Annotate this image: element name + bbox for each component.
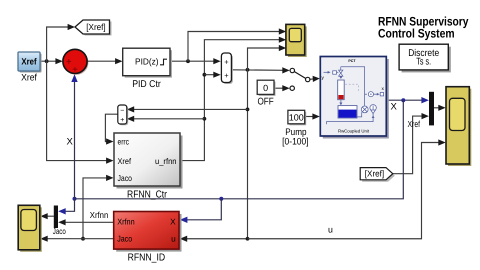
wire Manual Switch output to Subsystem input 1 — [310, 76, 320, 82]
svg-text:Xref: Xref — [118, 156, 132, 166]
constant 0 block — [257, 80, 275, 107]
constant 100 block (Pump) — [282, 110, 309, 147]
wire u line right and up to Scope2 input 2 — [248, 139, 446, 238]
svg-text:PCT: PCT — [348, 59, 356, 63]
node u_rfnn junction at Sum3 branch — [203, 117, 207, 121]
wire X feedback down and left (blue) — [75, 100, 404, 199]
wire X output of Subsystem to Mux1 input 1 (blue) — [386, 97, 429, 103]
wire PID branch up to Scope1 input 1 — [188, 28, 286, 61]
wire Sum2 output to Manual Switch input 1 — [232, 67, 290, 73]
wire Xref branch down to RFNN_Ctr Xref input — [47, 61, 114, 164]
svg-text:−: − — [120, 108, 124, 115]
subsystem pump circle — [370, 105, 376, 114]
wire u_total branch to Sum3 minus input — [127, 106, 248, 112]
subsystem plant (tank model) — [320, 57, 389, 139]
svg-text:RwCoupled Unit: RwCoupled Unit — [338, 128, 370, 133]
node PID output junction — [186, 59, 190, 63]
wire Sum to PID — [87, 58, 122, 64]
node u_total junction at Sum3 minus branch — [246, 108, 250, 112]
goto tag [Xref] — [75, 20, 112, 36]
svg-text:RFNN_ID: RFNN_ID — [128, 252, 166, 263]
svg-text:Xref: Xref — [21, 57, 37, 67]
svg-text:errc: errc — [118, 137, 130, 147]
sum3 block (- +) flipped — [118, 105, 128, 125]
subsystem inner inlet arrow and box — [324, 71, 339, 74]
svg-text:Xref: Xref — [21, 73, 37, 84]
svg-text:[Xref]: [Xref] — [86, 22, 105, 32]
subsystem arrow into tube — [339, 76, 342, 79]
svg-text:RFNN_Ctr: RFNN_Ctr — [127, 190, 168, 201]
from tag [Xref] — [360, 168, 395, 182]
wire Constant 0 to Manual Switch input 2 — [274, 85, 290, 91]
sum block (red circle) — [63, 49, 89, 75]
wire u_rfnn branch to Sum3 plus input — [127, 116, 205, 122]
svg-text:OFF: OFF — [258, 96, 274, 107]
scope1 (yellow, 3 inputs) — [286, 24, 307, 57]
subsystem tube with red bottom — [338, 80, 345, 100]
wire X feedback down to Mux2 input 1 (blue) — [58, 199, 74, 215]
wire Mux2 output to Scope3 input 1 — [40, 213, 54, 219]
svg-text:100: 100 — [289, 113, 304, 123]
Discrete Ts block — [399, 44, 451, 72]
node X feedback junction at RFNN_ID branch (blue) — [219, 197, 223, 201]
svg-text:+: + — [224, 57, 229, 66]
wire RFNN_ID Jaco output to Scope3 input 2 — [40, 236, 114, 242]
svg-text:Xrfnn: Xrfnn — [90, 210, 109, 220]
svg-text:X: X — [391, 102, 398, 113]
wire Xref inport to Sum — [40, 58, 63, 64]
svg-text:Jaco: Jaco — [53, 226, 66, 236]
title RFNN Supervisory Control System — [378, 15, 469, 41]
node X feedback junction at Sum branch (blue) — [73, 197, 77, 201]
svg-text:+: + — [120, 117, 124, 124]
wire Xref branch up to Goto tag — [47, 24, 75, 61]
node u_rfnn junction at Sum2 branch — [203, 73, 207, 77]
svg-text:u_rfnn: u_rfnn — [155, 156, 177, 166]
subsystem arrow tube to tank — [339, 100, 342, 106]
mux2 (vertical black bar, flipped) labelled Jaco — [53, 206, 66, 236]
wire Mux1 output to Scope2 input 1 — [434, 105, 446, 111]
svg-text:PID(z): PID(z) — [135, 56, 159, 66]
subsystem top pipe line — [341, 67, 365, 106]
svg-text:X: X — [67, 136, 74, 147]
subsystem bottom feedback pipe — [327, 114, 375, 125]
wire From tag Xref to Mux1 input 2 — [392, 113, 429, 174]
manual switch — [290, 68, 310, 90]
RFNN_Ctr block — [114, 133, 183, 201]
node Jaco junction — [81, 237, 85, 241]
wire RFNN_ID Xrfnn output to Mux2 input 2 — [58, 219, 114, 225]
wire Constant 100 to Subsystem input 2 — [305, 113, 320, 119]
svg-text:Jaco: Jaco — [117, 234, 132, 244]
svg-text:PID Ctr: PID Ctr — [132, 79, 161, 90]
subsystem valve symbol (hourglass) — [339, 67, 343, 76]
wire u_total vertical line — [248, 45, 287, 239]
RFNN_ID block — [114, 212, 182, 264]
wire X feedback branch to RFNN_ID X input (blue) — [180, 199, 222, 223]
node X junction (blue) — [401, 98, 405, 102]
svg-text:[Xref]: [Xref] — [365, 169, 384, 179]
svg-text:Jaco: Jaco — [118, 173, 133, 183]
subsystem dashed sensor lines — [345, 84, 358, 91]
wire u line from Sum2 junction down to RFNN_ID u input — [180, 236, 248, 242]
svg-text:0: 0 — [263, 83, 268, 93]
node u_total junction — [246, 68, 250, 72]
scope3 (yellow, flipped, 2 inputs) — [18, 205, 42, 252]
svg-text:u: u — [171, 234, 176, 244]
svg-text:[0-100]: [0-100] — [282, 137, 309, 148]
inport Xref — [18, 52, 42, 84]
wire u_rfnn branch to Sum2 input 2 — [204, 72, 220, 78]
svg-text:Xref: Xref — [408, 119, 421, 129]
mux1 (vertical black bar) — [429, 92, 434, 126]
wire X feedback up to Sum bottom input (blue) — [71, 74, 77, 199]
subsystem tank with blue water — [338, 106, 357, 118]
node Xref branch junction — [45, 59, 49, 63]
wire PID output to Sum2 input 1 — [170, 58, 221, 64]
node u junction — [246, 237, 250, 241]
subsystem pipe tank to valve circle — [357, 112, 362, 117]
wire u_rfnn from RFNN_Ctr up to Scope1 input 2 — [180, 37, 287, 161]
svg-text:Ts s.: Ts s. — [416, 57, 431, 68]
svg-text:X: X — [170, 217, 176, 227]
svg-text:Control System: Control System — [378, 26, 455, 40]
sum2 block (+ +) — [221, 53, 233, 84]
subsystem valve circle with cross — [361, 106, 368, 113]
wire Sum3 output to RFNN_Ctr errc input — [105, 114, 117, 144]
svg-text:u: u — [328, 225, 333, 235]
wire Jaco feedback up to RFNN_Ctr Jaco input — [83, 175, 114, 239]
subsystem level sensor circle on x line — [365, 92, 384, 97]
scope2 (tall yellow) — [446, 87, 471, 166]
PID controller block — [123, 48, 172, 90]
svg-text:Xrfnn: Xrfnn — [117, 217, 135, 227]
svg-text:+: + — [224, 71, 229, 80]
